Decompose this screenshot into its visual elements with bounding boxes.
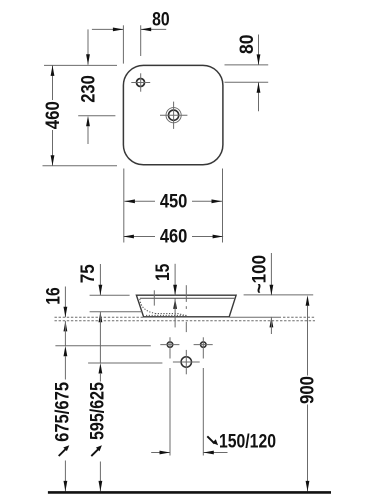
dimension 15 (rim) <box>152 263 177 327</box>
drain outlet circle <box>173 350 200 374</box>
drain D1 <box>160 102 187 129</box>
dimension 460 (vertical, far left) <box>42 65 117 165</box>
dimension 16 (console board) <box>43 287 68 346</box>
svg-text:15: 15 <box>152 263 174 281</box>
svg-text:75: 75 <box>77 264 99 283</box>
dimension ~100 (right) <box>248 253 273 334</box>
console board bottom (dash-dot) <box>55 320 316 322</box>
counter top line (left, solid) <box>90 311 142 313</box>
svg-text:~100: ~100 <box>248 255 270 294</box>
inner rim line <box>140 297 234 299</box>
centre line (elevation, dash-dot) <box>185 285 187 302</box>
hidden bowl contour (dotted) <box>140 299 155 313</box>
svg-text:16: 16 <box>43 287 65 305</box>
extension lines for 150/120 <box>169 368 171 456</box>
basin outline (top view rounded square) <box>123 65 222 164</box>
svg-text:150/120: 150/120 <box>219 431 276 453</box>
dimension 80 (top) <box>92 8 170 31</box>
extension lines below basin (left / right) <box>123 169 125 243</box>
dimension 675/675 <box>52 346 74 492</box>
basin body (elevation trapezoid) <box>136 295 236 317</box>
extension line: basin left edge up <box>122 25 124 63</box>
wall hole left WH1 <box>160 337 179 358</box>
svg-text:450: 450 <box>160 191 188 213</box>
extension line drain level (595) <box>88 362 162 364</box>
console board top (dash-dot) <box>55 316 144 318</box>
dimension 80 (right side, vertical) <box>225 34 269 111</box>
svg-text:900: 900 <box>296 376 318 404</box>
svg-text:80: 80 <box>236 34 258 54</box>
dimension 230 (vertical, left of basin) <box>78 29 116 144</box>
dimension 150/120 <box>151 431 276 455</box>
hidden bowl bottom (dotted) <box>155 314 187 316</box>
dimension 900 (right) <box>296 295 318 491</box>
svg-text:595/625: 595/625 <box>87 382 109 440</box>
dimension 450 <box>124 191 222 213</box>
extension line holes level (675) <box>55 345 150 347</box>
faucet hole F1 <box>131 73 150 91</box>
svg-text:675/675: 675/675 <box>52 382 74 442</box>
svg-text:80: 80 <box>152 8 170 30</box>
dimension 460 (bottom) <box>123 226 223 248</box>
floor line <box>48 491 331 494</box>
hidden hatch dots above bottom edge <box>146 314 188 316</box>
svg-text:460: 460 <box>42 101 64 129</box>
dimension 595/625 <box>87 363 109 491</box>
extension line: basin top left <box>90 294 130 296</box>
extension line: basin top right <box>244 294 314 296</box>
faucet axis tick (elevation) <box>153 290 155 305</box>
wall hole right WH2 <box>194 337 213 358</box>
dimension 75 (left) <box>77 264 102 363</box>
extension line: faucet axis up <box>140 25 142 56</box>
svg-text:460: 460 <box>160 226 188 248</box>
svg-text:230: 230 <box>78 75 100 103</box>
